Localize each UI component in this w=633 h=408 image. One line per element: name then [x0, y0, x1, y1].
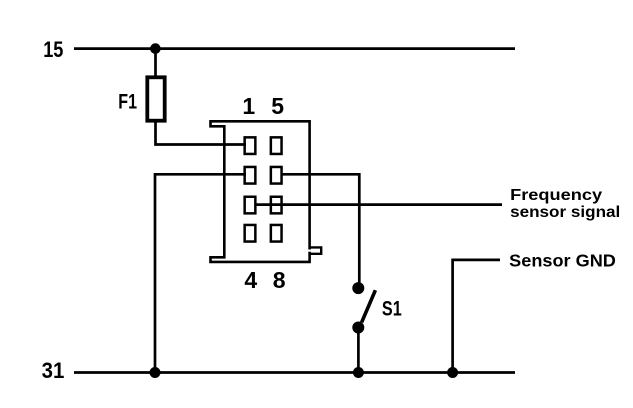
svg-text:4: 4 — [244, 267, 257, 293]
svg-text:31: 31 — [42, 358, 65, 383]
svg-text:15: 15 — [43, 37, 63, 62]
svg-text:F1: F1 — [118, 89, 137, 113]
svg-text:Frequency: Frequency — [510, 187, 602, 204]
svg-text:5: 5 — [271, 93, 284, 119]
svg-text:1: 1 — [242, 93, 255, 119]
svg-text:8: 8 — [273, 267, 286, 293]
svg-text:S1: S1 — [382, 297, 402, 320]
svg-text:sensor signal: sensor signal — [510, 204, 620, 221]
svg-text:Sensor GND: Sensor GND — [509, 250, 616, 270]
